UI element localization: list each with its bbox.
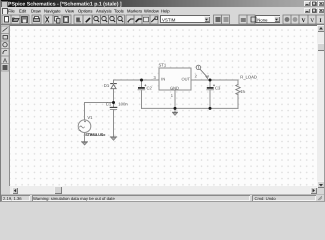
resistor R_LOAD bbox=[236, 80, 240, 108]
svg-text:A: A bbox=[3, 58, 7, 65]
svg-text:Edit: Edit bbox=[19, 8, 27, 13]
vertical scrollbar bbox=[317, 25, 325, 188]
svg-text:3: 3 bbox=[154, 75, 157, 80]
voltage marker probe bbox=[196, 65, 208, 78]
svg-text:V: V bbox=[302, 18, 306, 24]
rail junction (GND pin) bbox=[174, 107, 177, 110]
window glyphs row1 bbox=[306, 4, 309, 6]
node B junction (C2 tap) bbox=[140, 79, 143, 82]
svg-text:V1: V1 bbox=[87, 115, 93, 120]
wire V1 bottom bbox=[84, 133, 86, 142]
capacitor C3 (polarized) bbox=[207, 80, 215, 108]
ground (rail) bbox=[173, 108, 178, 115]
svg-text:STIMULUS=: STIMULUS= bbox=[85, 133, 106, 137]
wire OUT to R_LOAD bbox=[191, 79, 238, 81]
svg-text:V: V bbox=[310, 18, 314, 24]
svg-text:Markers: Markers bbox=[127, 8, 142, 13]
diode D1 bbox=[111, 80, 117, 103]
status bar bbox=[0, 194, 325, 203]
wire GND pin to rail bbox=[174, 90, 176, 108]
svg-text:Analysis: Analysis bbox=[96, 8, 112, 13]
svg-text:Draw: Draw bbox=[31, 8, 42, 13]
scrollbar glyphs bbox=[319, 27, 323, 30]
toolbar glyphs bbox=[5, 16, 322, 24]
svg-text:Navigate: Navigate bbox=[44, 8, 61, 13]
svg-text:View: View bbox=[65, 8, 75, 13]
svg-text:2: 2 bbox=[195, 73, 198, 78]
toolbar buttons (borders) bbox=[2, 15, 325, 24]
svg-text:1: 1 bbox=[171, 93, 174, 98]
svg-text:I: I bbox=[320, 18, 322, 24]
combo VSTIM bbox=[160, 15, 210, 23]
rail junction (C3 bottom) bbox=[209, 107, 212, 110]
svg-text:PSpice Schematics - [*Schemati: PSpice Schematics - [*Schematic1 p.1 (st… bbox=[8, 2, 122, 8]
toolbar bbox=[0, 14, 325, 25]
capacitor C2 (polarized) bbox=[138, 80, 146, 108]
regulator U ST1 box bbox=[159, 68, 191, 90]
svg-text:100n: 100n bbox=[118, 102, 128, 107]
svg-text:VSTIM: VSTIM bbox=[162, 18, 176, 23]
svg-text:Options: Options bbox=[78, 8, 92, 13]
svg-text:Cmd: Undo: Cmd: Undo bbox=[255, 196, 277, 201]
svg-text:ST1: ST1 bbox=[159, 62, 167, 67]
wire V1 top to node A bbox=[85, 103, 114, 121]
svg-text:2.19, 1.36: 2.19, 1.36 bbox=[3, 196, 22, 201]
svg-text:Warning: simulation data may: Warning: simulation data may be out of d… bbox=[33, 196, 115, 201]
svg-text:15: 15 bbox=[240, 89, 245, 94]
canvas bbox=[10, 25, 317, 186]
combo None bbox=[255, 15, 280, 23]
node A junction bbox=[112, 101, 115, 104]
node C junction (C3 tap / probe) bbox=[209, 79, 212, 82]
svg-text:File: File bbox=[8, 8, 15, 13]
left strip icons bbox=[1, 26, 9, 71]
title bar bbox=[0, 0, 325, 7]
svg-text:R_LOAD: R_LOAD bbox=[240, 75, 257, 80]
window glyphs row2 bbox=[306, 11, 309, 13]
wire node A to regulator IN bbox=[114, 79, 160, 81]
svg-text:C3: C3 bbox=[215, 85, 221, 90]
ground (V1) bbox=[82, 142, 88, 145]
menu bar bbox=[0, 7, 325, 14]
horizontal scrollbar bbox=[10, 186, 317, 194]
left tool strip bbox=[0, 25, 10, 194]
voltage source V1 bbox=[78, 120, 91, 133]
svg-text:D1: D1 bbox=[104, 83, 110, 88]
svg-text:Tools: Tools bbox=[114, 8, 124, 13]
svg-text:C2: C2 bbox=[147, 85, 153, 90]
svg-text:None: None bbox=[257, 18, 268, 23]
capacitor C1 bbox=[110, 103, 116, 137]
ground (C1) bbox=[110, 137, 116, 140]
svg-text:C1: C1 bbox=[106, 102, 112, 107]
bottom rail wire bbox=[142, 107, 239, 109]
svg-text:OUT: OUT bbox=[182, 77, 191, 82]
svg-text:Window: Window bbox=[144, 8, 160, 13]
title buttons bbox=[304, 1, 310, 6]
svg-text:Help: Help bbox=[161, 8, 170, 13]
svg-text:IN: IN bbox=[161, 77, 165, 82]
status text bbox=[3, 196, 276, 201]
